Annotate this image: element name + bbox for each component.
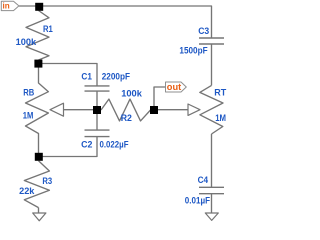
wire C1 bottom to junction D bbox=[96, 91, 98, 110]
resistor R3 bbox=[24, 161, 49, 208]
svg-text:RT: RT bbox=[214, 87, 226, 98]
wire out tag to junction E bbox=[154, 87, 166, 110]
svg-text:R1: R1 bbox=[43, 24, 53, 35]
wire RB wiper to junction D bbox=[64, 109, 98, 111]
capacitor C2 bbox=[85, 130, 110, 137]
wire R3 bottom to left ground bbox=[38, 208, 40, 213]
svg-text:2200pF: 2200pF bbox=[102, 71, 130, 82]
resistor RB (potentiometer) bbox=[26, 67, 49, 153]
junction node D (C1 / C2 / RB wiper / R2) bbox=[93, 106, 101, 114]
wire C2 bottom to junction C bbox=[39, 137, 98, 157]
svg-text:C1: C1 bbox=[81, 72, 92, 83]
svg-text:C2: C2 bbox=[81, 140, 92, 151]
svg-text:R2: R2 bbox=[121, 113, 132, 124]
svg-text:1M: 1M bbox=[23, 110, 34, 121]
wire junction E to RT wiper bbox=[154, 109, 188, 111]
junction node A (in / R1 top) bbox=[35, 3, 43, 11]
svg-text:C4: C4 bbox=[198, 175, 209, 186]
wire junction B to C1 top bbox=[39, 64, 98, 87]
svg-text:0.01µF: 0.01µF bbox=[185, 196, 210, 207]
port out tag bbox=[166, 82, 187, 92]
resistor R2 bbox=[101, 99, 151, 121]
svg-text:22k: 22k bbox=[19, 186, 35, 197]
svg-text:RB: RB bbox=[23, 87, 34, 98]
wire RT bottom to C4 top bbox=[211, 134, 213, 187]
resistor RT (potentiometer) bbox=[200, 85, 223, 134]
junction node B (R1 / RB / C1) bbox=[34, 60, 42, 68]
capacitor C3 bbox=[199, 38, 224, 44]
capacitor C4 bbox=[199, 187, 224, 193]
ground right bbox=[205, 213, 218, 220]
svg-text:1M: 1M bbox=[215, 113, 226, 124]
svg-text:C3: C3 bbox=[198, 26, 209, 37]
svg-text:1500pF: 1500pF bbox=[179, 46, 207, 57]
resistor R1 bbox=[26, 11, 49, 61]
svg-text:0.022µF: 0.022µF bbox=[100, 139, 129, 150]
ground left bbox=[33, 213, 46, 221]
wire C4 bottom to right ground bbox=[211, 194, 213, 213]
wire top rail from in port to right rail down to C3 bbox=[19, 6, 212, 38]
junction node E (R2 / out / RT wiper) bbox=[150, 106, 158, 114]
wire C3 bottom to RT top bbox=[211, 44, 213, 85]
svg-text:R3: R3 bbox=[42, 176, 52, 187]
port in tag bbox=[1, 1, 19, 10]
wire junction D to C2 top bbox=[96, 110, 98, 130]
RB wiper arrow bbox=[50, 103, 64, 116]
svg-text:out: out bbox=[167, 82, 181, 92]
capacitor C1 bbox=[85, 86, 110, 91]
svg-text:in: in bbox=[3, 1, 10, 11]
svg-text:100k: 100k bbox=[16, 37, 37, 48]
junction node C (RB / R3 / C2) bbox=[35, 153, 43, 161]
RT wiper arrow bbox=[188, 104, 200, 115]
svg-text:100k: 100k bbox=[121, 88, 142, 99]
